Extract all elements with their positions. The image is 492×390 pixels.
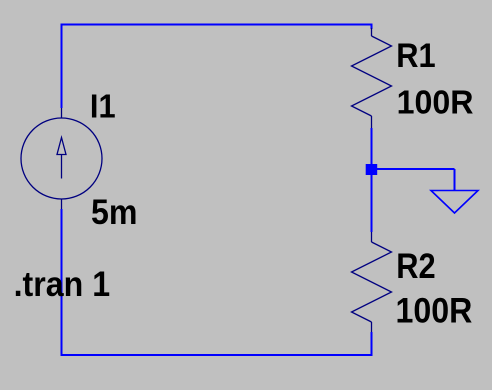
wire right vertical upper stub <box>371 24 373 29</box>
wire node to ground horizontal <box>372 168 455 170</box>
wire node to R2 top <box>371 169 373 232</box>
wire left vertical lower <box>61 209 63 356</box>
wire left vertical upper <box>61 24 63 108</box>
svg-text:.tran 1: .tran 1 <box>14 265 110 305</box>
value 100R of R2 <box>396 292 473 330</box>
resistor R2 symbol <box>352 232 392 332</box>
value 5m <box>91 192 137 232</box>
label R2 <box>396 246 435 285</box>
wire bottom horizontal <box>61 354 373 356</box>
value 100R of R1 <box>397 83 474 121</box>
label R1 <box>396 37 435 75</box>
svg-text:R2: R2 <box>396 246 435 285</box>
resistor R1 symbol <box>352 28 392 128</box>
ground symbol <box>431 191 478 214</box>
label I1 <box>90 87 116 124</box>
wire R1 bottom to node <box>371 128 373 169</box>
current source I1 symbol <box>21 108 102 209</box>
svg-text:100R: 100R <box>396 292 473 330</box>
svg-text:R1: R1 <box>396 37 435 75</box>
svg-text:I1: I1 <box>90 87 116 124</box>
svg-text:100R: 100R <box>397 83 474 121</box>
node junction square <box>366 164 378 175</box>
wire right vertical bottom <box>371 332 373 356</box>
svg-text:5m: 5m <box>91 192 137 232</box>
wire ground vertical stub <box>454 169 456 190</box>
spice directive .tran 1 <box>14 265 110 305</box>
wire top horizontal <box>61 24 373 26</box>
